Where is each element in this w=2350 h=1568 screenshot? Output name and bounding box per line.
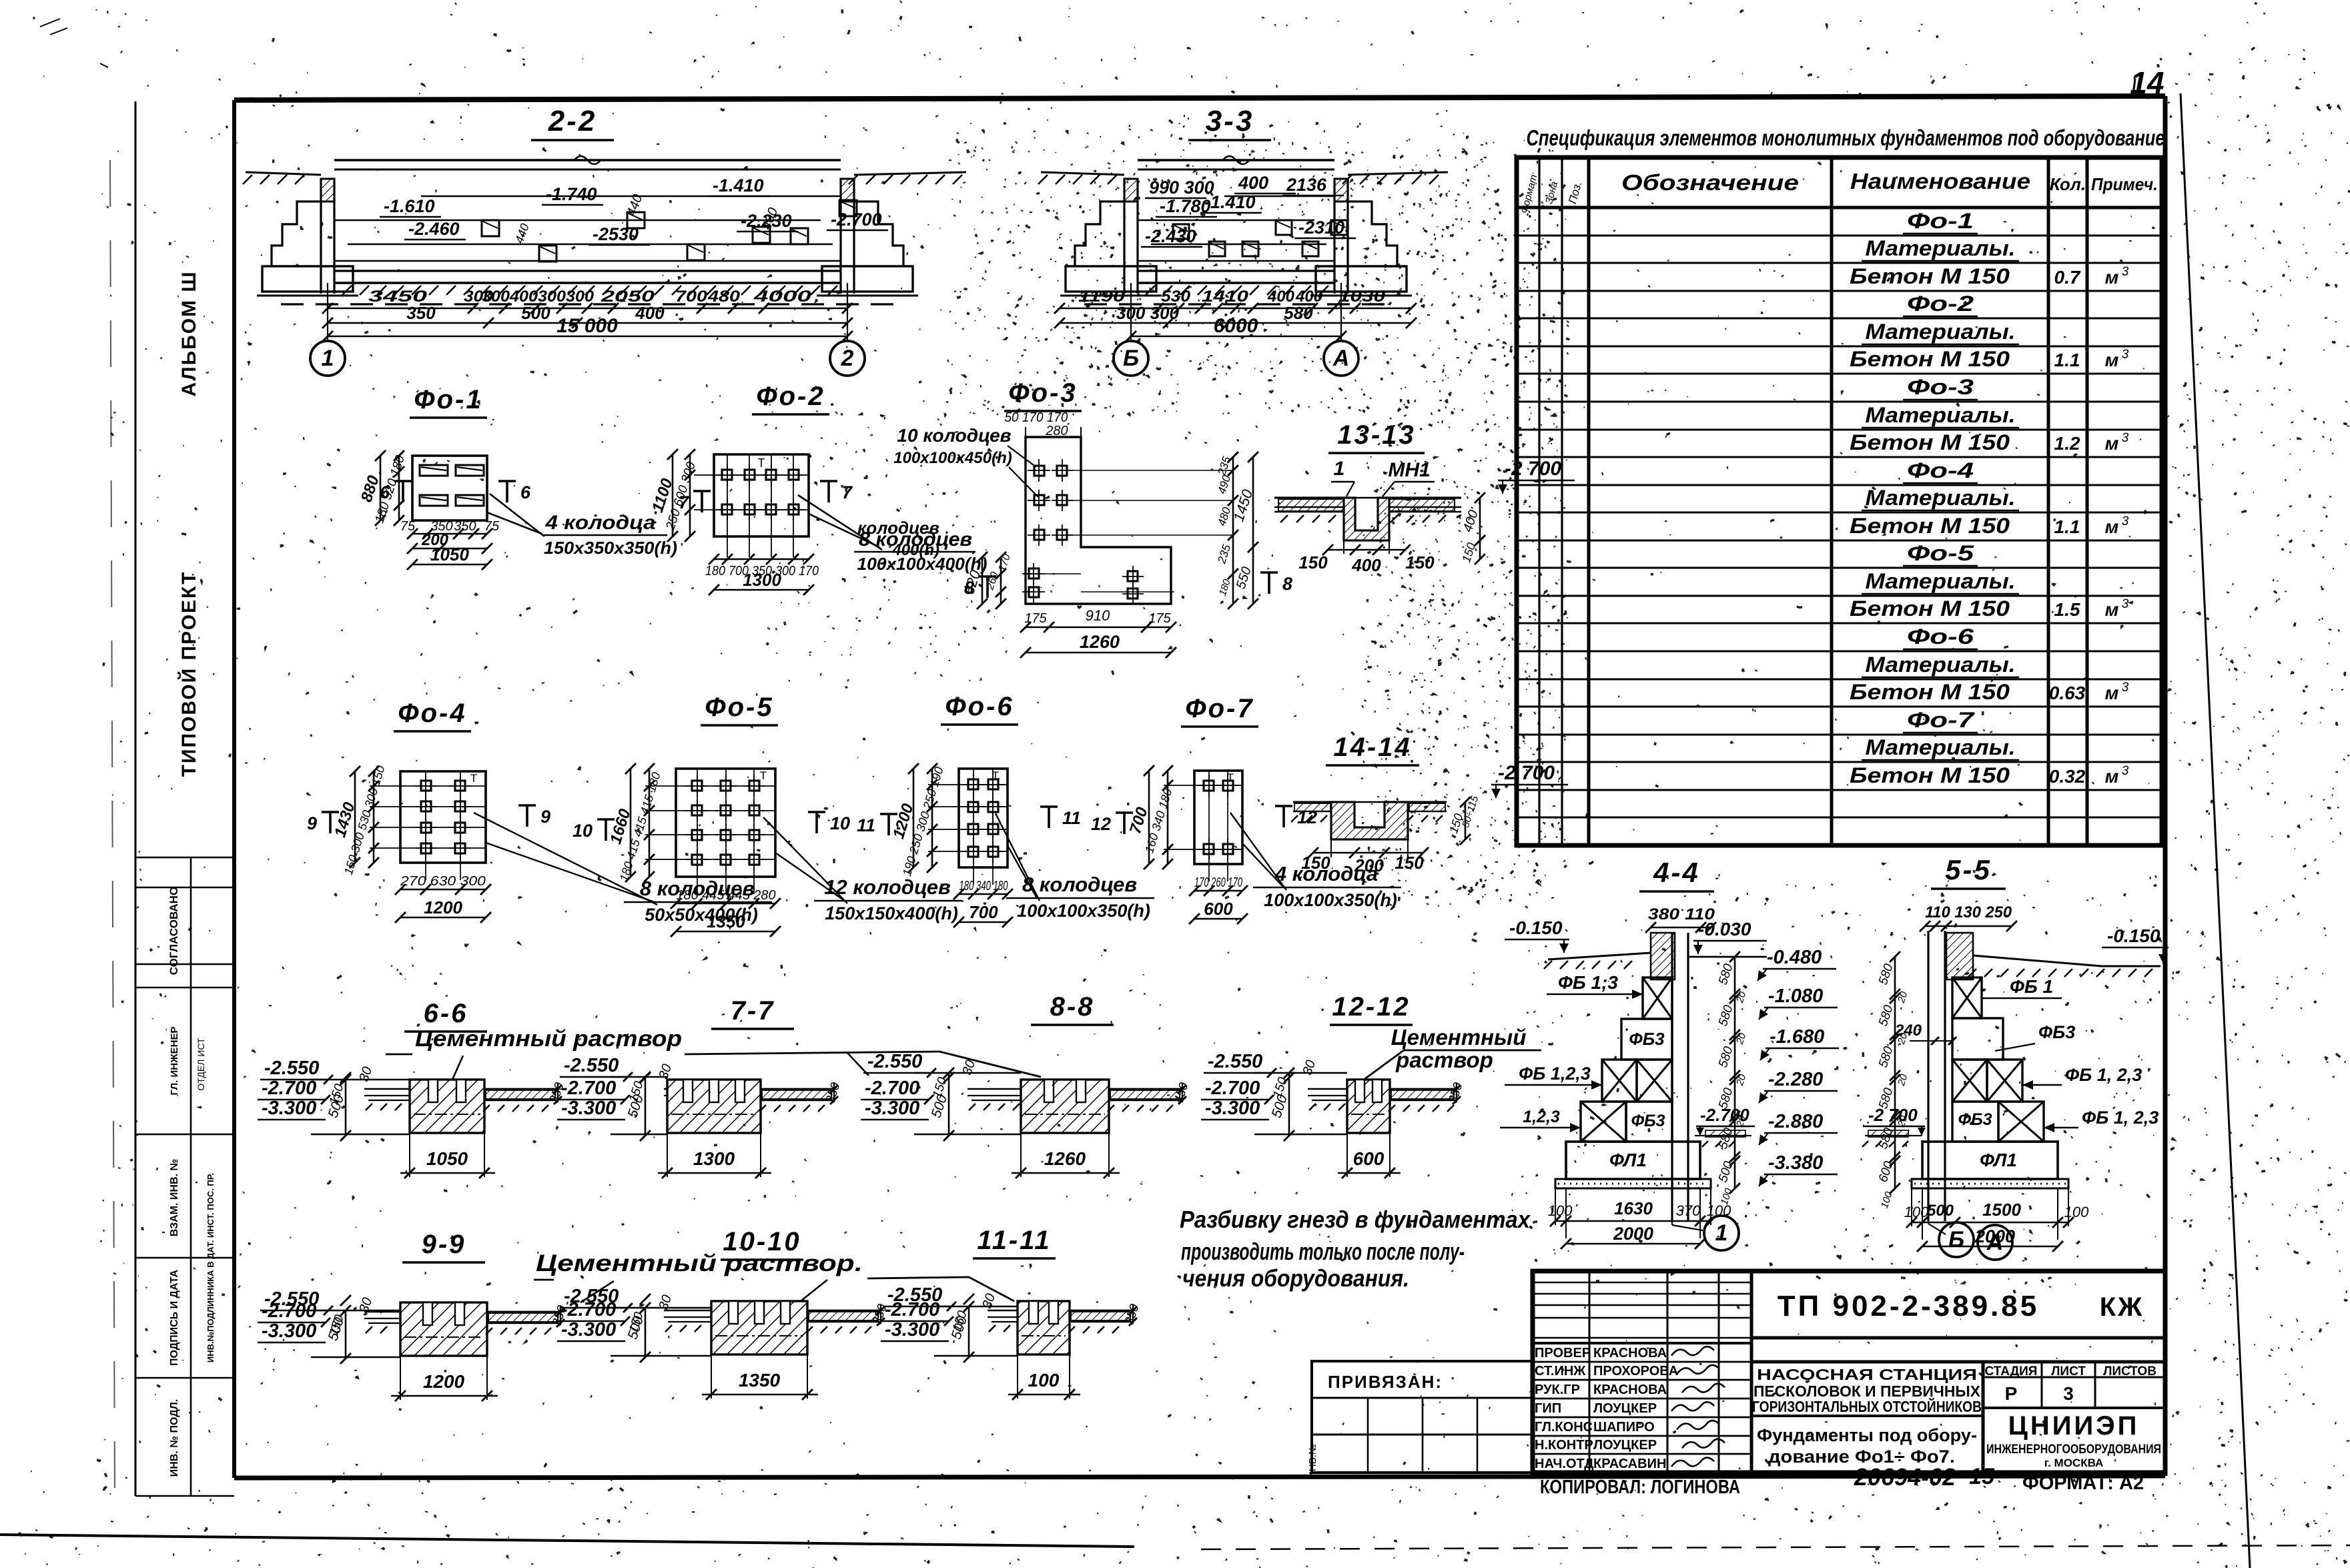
- svg-text:Фо-6: Фо-6: [1907, 625, 1974, 649]
- svg-text:А: А: [1986, 1230, 2004, 1255]
- svg-text:-0.480: -0.480: [1767, 947, 1822, 968]
- svg-text:50 170 170: 50 170 170: [1005, 410, 1068, 425]
- svg-text:Бетон М 150: Бетон М 150: [1850, 514, 2010, 538]
- svg-text:150х150х400(h): 150х150х400(h): [825, 903, 958, 923]
- svg-text:6000: 6000: [1214, 315, 1258, 337]
- svg-text:700: 700: [969, 902, 998, 922]
- svg-text:11: 11: [1062, 808, 1081, 828]
- svg-text:Фо-7: Фо-7: [1907, 708, 1976, 732]
- svg-text:270 630 300: 270 630 300: [400, 874, 486, 889]
- svg-text:РУК.ГР: РУК.ГР: [1535, 1383, 1580, 1397]
- svg-text:-3.380: -3.380: [1768, 1152, 1823, 1174]
- svg-text:ФОРМАТ: А2: ФОРМАТ: А2: [2022, 1473, 2144, 1494]
- svg-text:580: 580: [1876, 1045, 1896, 1070]
- svg-text:Материалы.: Материалы.: [1866, 403, 2016, 427]
- svg-text:580: 580: [1876, 1004, 1896, 1028]
- svg-text:8 колодцев: 8 колодцев: [1022, 873, 1137, 896]
- section 3-3 anchor boxes: [1173, 224, 1189, 239]
- svg-text:ФБ3: ФБ3: [1958, 1110, 1992, 1129]
- cement mortar label row3: [386, 1026, 1041, 1080]
- axis circle Б: [1114, 341, 1148, 376]
- svg-text:11: 11: [857, 815, 875, 835]
- svg-text:Спецификация элементов монолит: Спецификация элементов монолитных фундам…: [1527, 125, 2165, 150]
- 5-5 block FB3: [1952, 1018, 2003, 1060]
- svg-text:150: 150: [1301, 853, 1330, 873]
- svg-text:чения оборудования.: чения оборудования.: [1182, 1264, 1409, 1292]
- svg-text:ПРИВЯЗАН:: ПРИВЯЗАН:: [1328, 1372, 1443, 1392]
- svg-text:Фо-2: Фо-2: [756, 382, 825, 411]
- svg-text:580: 580: [1716, 1045, 1736, 1070]
- svg-text:МН1: МН1: [1388, 459, 1430, 481]
- svg-text:100: 100: [2064, 1204, 2089, 1220]
- svg-text:10: 10: [830, 813, 850, 833]
- svg-text:30: 30: [980, 1292, 998, 1310]
- svg-text:Т: Т: [760, 769, 767, 782]
- svg-text:3: 3: [2122, 514, 2129, 528]
- svg-text:30: 30: [356, 1065, 375, 1084]
- svg-text:ФБ 1;3: ФБ 1;3: [1558, 972, 1618, 993]
- svg-text:75: 75: [400, 519, 416, 534]
- svg-text:-1.780: -1.780: [1160, 196, 1211, 216]
- plan Фо-6: [857, 692, 1154, 927]
- cement mortar label row4: [534, 1250, 1014, 1302]
- svg-text:Бетон М 150: Бетон М 150: [1850, 597, 2010, 621]
- note text: [1180, 1206, 1531, 1292]
- plan Fo-3: [857, 378, 1292, 658]
- section 3-3 dim chain: [1130, 283, 1132, 340]
- svg-text:раствор: раствор: [1395, 1048, 1493, 1072]
- svg-text:350: 350: [406, 303, 436, 323]
- svg-text:1350: 1350: [707, 911, 745, 931]
- svg-text:ФБ 1, 2,3: ФБ 1, 2,3: [2065, 1065, 2142, 1085]
- svg-text:100: 100: [1879, 1190, 1895, 1210]
- svg-text:-2.700: -2.700: [865, 1078, 919, 1099]
- section 4-4: [1500, 857, 1839, 1250]
- svg-text:Бетон М 150: Бетон М 150: [1850, 347, 2010, 371]
- svg-text:-0.150: -0.150: [1509, 917, 1563, 938]
- svg-text:Цементный раствор: Цементный раствор: [415, 1026, 682, 1052]
- svg-text:Материалы.: Материалы.: [1866, 236, 2016, 260]
- svg-text:-2.700: -2.700: [561, 1078, 616, 1099]
- axis circle 2: [830, 341, 865, 376]
- svg-text:ФЛ1: ФЛ1: [1980, 1150, 2017, 1170]
- svg-text:12-12: 12-12: [1332, 992, 1410, 1022]
- svg-text:-2.550: -2.550: [264, 1058, 319, 1079]
- svg-text:150: 150: [1459, 541, 1478, 564]
- svg-text:3: 3: [2122, 431, 2129, 445]
- svg-text:Т: Т: [758, 456, 765, 470]
- svg-text:ИНВ.№: ИНВ.№: [1307, 1444, 1318, 1479]
- svg-text:-1.740: -1.740: [546, 184, 597, 204]
- svg-text:ФБ3: ФБ3: [1631, 1112, 1665, 1130]
- svg-text:180: 180: [1217, 577, 1233, 597]
- section 9-9: [258, 1230, 570, 1401]
- svg-text:350: 350: [454, 519, 476, 534]
- svg-text:м: м: [2105, 516, 2119, 537]
- axis circles B A (5-5): [1928, 1188, 1929, 1224]
- section 5-5: [1862, 854, 2169, 1260]
- section 3-3 stepped footing right: [1348, 202, 1397, 266]
- section 6-6: [258, 999, 567, 1178]
- svg-text:15: 15: [1969, 1464, 1995, 1489]
- svg-text:9: 9: [540, 807, 550, 827]
- section 10-10: [557, 1227, 890, 1400]
- svg-text:ПОДПИСЬ И ДАТА: ПОДПИСЬ И ДАТА: [169, 1270, 180, 1366]
- svg-text:ФЛ1: ФЛ1: [1609, 1150, 1647, 1170]
- svg-text:Поз.: Поз.: [1566, 180, 1584, 206]
- svg-text:ОТДЕЛ ИСТ: ОТДЕЛ ИСТ: [195, 1038, 206, 1091]
- svg-text:Фо-5: Фо-5: [1907, 541, 1975, 565]
- svg-text:100: 100: [1904, 1204, 1929, 1220]
- svg-text:Материалы.: Материалы.: [1866, 486, 2016, 510]
- svg-text:Цементный раствор.: Цементный раствор.: [536, 1250, 863, 1276]
- svg-text:500: 500: [1927, 1202, 1954, 1220]
- svg-text:150х350х350(h): 150х350х350(h): [544, 538, 677, 558]
- svg-text:КРАСНОВА: КРАСНОВА: [1593, 1383, 1667, 1397]
- svg-text:ГЛ. ИНЖЕНЕР: ГЛ. ИНЖЕНЕР: [169, 1026, 180, 1095]
- svg-text:3-3: 3-3: [1206, 105, 1254, 137]
- cement mortar label 12-12: [1364, 1025, 1541, 1080]
- svg-text:7: 7: [842, 482, 853, 502]
- svg-text:Материалы.: Материалы.: [1866, 320, 2016, 344]
- svg-text:-1.610: -1.610: [384, 196, 435, 216]
- svg-text:-3.300: -3.300: [561, 1319, 616, 1340]
- svg-text:1350: 1350: [739, 1370, 781, 1391]
- svg-text:КЖ: КЖ: [2100, 1292, 2144, 1322]
- svg-text:2: 2: [841, 346, 854, 371]
- svg-text:1050: 1050: [426, 1148, 468, 1169]
- svg-text:1500: 1500: [1982, 1200, 2021, 1220]
- section 3-3 top slab: [1138, 159, 1334, 161]
- svg-text:0.7: 0.7: [2054, 267, 2081, 288]
- svg-text:7-7: 7-7: [731, 996, 775, 1026]
- section 12-12: [1201, 992, 1466, 1178]
- svg-text:Бетон М 150: Бетон М 150: [1850, 680, 2010, 704]
- svg-text:Б: Б: [1123, 346, 1139, 371]
- svg-text:-2.880: -2.880: [1768, 1111, 1823, 1132]
- svg-text:-3.300: -3.300: [885, 1319, 939, 1340]
- svg-text:400: 400: [1351, 555, 1381, 575]
- svg-text:-2.550: -2.550: [867, 1051, 922, 1072]
- svg-text:1300: 1300: [743, 570, 781, 590]
- svg-text:600: 600: [1353, 1148, 1385, 1169]
- svg-text:производить только после полу-: производить только после полу-: [1181, 1238, 1465, 1265]
- svg-text:2-2: 2-2: [548, 105, 597, 137]
- svg-text:100х100х350(h): 100х100х350(h): [1264, 890, 1397, 910]
- svg-text:1630: 1630: [1614, 1198, 1653, 1218]
- svg-text:170 260 170: 170 260 170: [1194, 875, 1242, 890]
- svg-text:1.2: 1.2: [2054, 433, 2080, 454]
- svg-text:Бетон М 150: Бетон М 150: [1850, 763, 2010, 787]
- svg-text:1: 1: [1715, 1220, 1728, 1246]
- svg-text:4 колодца: 4 колодца: [544, 512, 655, 534]
- svg-text:100х100х450(h): 100х100х450(h): [893, 449, 1012, 467]
- svg-text:м: м: [2105, 433, 2119, 454]
- svg-text:1050: 1050: [430, 544, 469, 564]
- svg-text:580: 580: [1716, 1126, 1736, 1151]
- svg-text:1: 1: [322, 346, 334, 371]
- svg-text:КОПИРОВАЛ: ЛОГИНОВА: КОПИРОВАЛ: ЛОГИНОВА: [1540, 1477, 1740, 1498]
- svg-text:200: 200: [1354, 855, 1384, 875]
- svg-text:-2.700: -2.700: [561, 1299, 616, 1320]
- 4-4 bottom row X + FB3: [1581, 1102, 1626, 1142]
- svg-text:ИНВ. № ПОДЛ.: ИНВ. № ПОДЛ.: [169, 1399, 180, 1477]
- svg-text:370: 370: [1676, 1202, 1701, 1219]
- svg-text:-0.150: -0.150: [2107, 925, 2161, 946]
- svg-text:1300: 1300: [693, 1148, 735, 1169]
- spec table grid: [1517, 157, 2162, 845]
- svg-text:-3.300: -3.300: [561, 1098, 616, 1119]
- svg-text:-2.700: -2.700: [1205, 1078, 1260, 1099]
- section 2-2 ground lines: [246, 172, 321, 175]
- section 13-13: [1274, 420, 1575, 575]
- svg-text:Наименование: Наименование: [1850, 169, 2030, 193]
- section 2-2 dim chain: [327, 283, 328, 340]
- svg-text:500: 500: [521, 303, 550, 323]
- svg-text:Фо-3: Фо-3: [1008, 378, 1077, 408]
- axis circle 1 (4-4): [1671, 1188, 1673, 1225]
- svg-text:30: 30: [656, 1293, 675, 1312]
- svg-text:150: 150: [1405, 552, 1435, 572]
- axis circle 1: [310, 341, 345, 376]
- svg-text:580: 580: [1716, 962, 1736, 987]
- svg-text:-0.030: -0.030: [1698, 919, 1751, 939]
- svg-text:10: 10: [572, 821, 593, 841]
- svg-text:Б: Б: [1948, 1227, 1964, 1252]
- svg-text:Обозначение: Обозначение: [1621, 170, 1799, 195]
- svg-text:100: 100: [1028, 1370, 1060, 1391]
- svg-text:400: 400: [1238, 173, 1268, 193]
- svg-text:-3.300: -3.300: [262, 1098, 316, 1119]
- svg-text:ВЗАМ. ИНВ. №: ВЗАМ. ИНВ. №: [169, 1159, 180, 1236]
- section 3-3 dashed line: [1084, 303, 1388, 305]
- svg-text:-1.410: -1.410: [713, 175, 764, 195]
- svg-text:ИНЖЕНЕРНОГООБОРУДОВАНИЯ: ИНЖЕНЕРНОГООБОРУДОВАНИЯ: [1986, 1443, 2161, 1457]
- section 2-2 stepped footing right: [854, 202, 903, 266]
- svg-text:235: 235: [1215, 542, 1233, 565]
- section 3-3 walls: [1123, 179, 1125, 294]
- svg-text:Фо-4: Фо-4: [398, 699, 466, 728]
- svg-text:8: 8: [1282, 574, 1292, 594]
- svg-text:Бетон М 150: Бетон М 150: [1850, 264, 2010, 288]
- plan Fo-2: [649, 382, 987, 595]
- svg-text:м: м: [2105, 766, 2119, 787]
- svg-text:580: 580: [1284, 303, 1313, 323]
- svg-text:-1.680: -1.680: [1770, 1026, 1824, 1048]
- svg-text:7: 7: [679, 492, 690, 512]
- svg-text:580: 580: [1876, 1126, 1896, 1151]
- svg-text:Материалы.: Материалы.: [1866, 653, 2016, 677]
- svg-text:ЛОУЦКЕР: ЛОУЦКЕР: [1593, 1438, 1657, 1453]
- plan Fo-1: [358, 385, 677, 570]
- svg-text:400(h): 400(h): [891, 541, 939, 559]
- svg-text:8-8: 8-8: [1050, 992, 1095, 1022]
- svg-text:600: 600: [1876, 1160, 1896, 1184]
- 5-5 block FB1 top: [1952, 977, 1982, 1018]
- svg-text:КРАСНОВА: КРАСНОВА: [1593, 1346, 1667, 1360]
- svg-text:580: 580: [1876, 962, 1896, 987]
- section 2-2 tank bottom: [334, 270, 841, 272]
- 4-4 block FB1,3 top: [1643, 977, 1672, 1019]
- svg-text:Материалы.: Материалы.: [1866, 735, 2016, 759]
- svg-text:ФБ3: ФБ3: [2038, 1022, 2075, 1042]
- svg-text:175: 175: [1024, 611, 1047, 626]
- svg-text:Фо-7: Фо-7: [1185, 694, 1254, 723]
- svg-text:480: 480: [707, 288, 741, 306]
- section 2-2 dashed line: [281, 303, 894, 305]
- svg-text:Т: Т: [992, 769, 999, 782]
- svg-text:910: 910: [1086, 607, 1110, 624]
- svg-text:0.63: 0.63: [2049, 683, 2086, 703]
- svg-text:2000: 2000: [1613, 1224, 1653, 1244]
- svg-text:-2.700: -2.700: [885, 1299, 939, 1320]
- svg-text:Кол.: Кол.: [2050, 174, 2086, 194]
- svg-text:12 колодцев: 12 колодцев: [824, 875, 951, 899]
- svg-text:Зона: Зона: [1543, 180, 1560, 205]
- svg-text:1.1: 1.1: [2054, 516, 2080, 537]
- svg-text:Материалы.: Материалы.: [1866, 569, 2016, 593]
- svg-text:-2.700: -2.700: [262, 1078, 316, 1099]
- 4-4 footing FL1: [1566, 1142, 1700, 1179]
- svg-text:6-6: 6-6: [424, 999, 468, 1028]
- svg-text:280: 280: [1045, 424, 1068, 438]
- section 3-3 ground lines: [1041, 172, 1124, 175]
- svg-text:150: 150: [1395, 853, 1424, 873]
- svg-text:Разбивку гнезд в фундаментах: Разбивку гнезд в фундаментах: [1180, 1206, 1531, 1233]
- svg-text:Примеч.: Примеч.: [2091, 174, 2158, 194]
- svg-text:3: 3: [2122, 265, 2129, 279]
- svg-text:14-14: 14-14: [1333, 733, 1411, 762]
- svg-text:-2.460: -2.460: [408, 219, 460, 239]
- svg-text:13-13: 13-13: [1337, 420, 1415, 450]
- svg-text:Фо-6: Фо-6: [945, 692, 1014, 721]
- svg-text:11-11: 11-11: [977, 1226, 1051, 1255]
- svg-text:ГЛ.КОНС: ГЛ.КОНС: [1535, 1420, 1593, 1435]
- left margin stamp column: [135, 270, 234, 1496]
- svg-text:100: 100: [1548, 1202, 1573, 1219]
- svg-text:150: 150: [1298, 552, 1328, 572]
- svg-text:-2.550: -2.550: [1208, 1051, 1262, 1072]
- svg-text:9-9: 9-9: [422, 1230, 466, 1259]
- svg-text:180 340 180: 180 340 180: [959, 879, 1008, 893]
- svg-text:А: А: [1332, 346, 1350, 371]
- svg-text:-2.700: -2.700: [262, 1300, 316, 1322]
- svg-text:170: 170: [997, 552, 1013, 573]
- svg-text:ЦНИИЭП: ЦНИИЭП: [2008, 1411, 2140, 1441]
- svg-text:-2.280: -2.280: [1768, 1069, 1823, 1090]
- svg-text:20: 20: [1896, 1072, 1910, 1088]
- svg-text:Фундаменты под обору-: Фундаменты под обору-: [1757, 1425, 1977, 1445]
- svg-text:1030: 1030: [1338, 288, 1386, 306]
- svg-text:ИНВ.№ПОДЛИННИКА В ДАТ. ИНСТ. П: ИНВ.№ПОДЛИННИКА В ДАТ. ИНСТ. ПОС. ПР.: [206, 1173, 216, 1362]
- svg-text:ШАПИРО: ШАПИРО: [1593, 1420, 1655, 1435]
- svg-text:Н.КОНТР: Н.КОНТР: [1535, 1438, 1593, 1453]
- svg-text:Фо-1: Фо-1: [414, 385, 482, 414]
- svg-text:ЛОУЦКЕР: ЛОУЦКЕР: [1593, 1401, 1657, 1416]
- svg-text:-1.080: -1.080: [1768, 986, 1823, 1007]
- svg-text:1.1: 1.1: [2054, 350, 2080, 370]
- svg-text:ТИПОВОЙ ПРОЕКТ: ТИПОВОЙ ПРОЕКТ: [177, 571, 200, 777]
- svg-text:12: 12: [1091, 814, 1111, 834]
- 5-5 bottom row FB3 + X: [1952, 1102, 1998, 1142]
- section 7-7: [557, 996, 843, 1178]
- svg-text:м: м: [2105, 683, 2119, 703]
- svg-text:440: 440: [512, 222, 532, 245]
- svg-text:180 445 445 280: 180 445 445 280: [677, 888, 776, 903]
- section 2-2 stepped footing left: [272, 202, 321, 266]
- svg-text:4000: 4000: [753, 288, 812, 306]
- section 3-3 stepped footing left: [1075, 202, 1124, 266]
- svg-text:100х100х350(h): 100х100х350(h): [1017, 901, 1150, 921]
- section 8-8: [861, 992, 1192, 1178]
- svg-text:1200: 1200: [423, 1371, 465, 1392]
- svg-text:Бетон М 150: Бетон М 150: [1850, 430, 2010, 454]
- svg-text:490: 490: [1215, 473, 1233, 495]
- svg-text:НАСОСНАЯ СТАНЦИЯ: НАСОСНАЯ СТАНЦИЯ: [1757, 1366, 1977, 1383]
- svg-text:500: 500: [1716, 1160, 1736, 1184]
- svg-text:4-4: 4-4: [1653, 857, 1700, 888]
- svg-text:1.5: 1.5: [2054, 599, 2080, 620]
- svg-text:1200: 1200: [424, 897, 462, 917]
- plan Фо-7: [1091, 694, 1401, 924]
- svg-text:СТ.ИНЖ: СТ.ИНЖ: [1535, 1364, 1586, 1379]
- 5-5 footing FL1: [1922, 1142, 2058, 1179]
- svg-text:ПРОВЕР: ПРОВЕР: [1535, 1346, 1591, 1360]
- svg-text:15 000: 15 000: [556, 315, 618, 337]
- section 2-2 inner lines: [421, 195, 841, 198]
- svg-text:НАЧ.ОТД: НАЧ.ОТД: [1535, 1457, 1594, 1471]
- svg-text:СОГЛАСОВАНО: СОГЛАСОВАНО: [167, 887, 180, 975]
- svg-text:м: м: [2105, 350, 2119, 370]
- svg-text:3: 3: [2063, 1383, 2074, 1404]
- svg-text:0.32: 0.32: [2049, 766, 2086, 787]
- privyazan box: [1307, 1361, 1533, 1479]
- svg-text:колодцев: колодцев: [857, 518, 939, 538]
- svg-text:6: 6: [520, 482, 531, 502]
- svg-text:5-5: 5-5: [1945, 854, 1992, 885]
- svg-text:м: м: [2105, 267, 2119, 288]
- svg-text:600: 600: [1204, 899, 1233, 919]
- svg-text:СТАДИЯ: СТАДИЯ: [1985, 1364, 2038, 1379]
- spec table rows text: [1850, 209, 2129, 787]
- svg-text:ГОРИЗОНТАЛЬНЫХ ОТСТОЙНИКОВ: ГОРИЗОНТАЛЬНЫХ ОТСТОЙНИКОВ: [1752, 1397, 1982, 1415]
- svg-text:580: 580: [1716, 1004, 1736, 1028]
- svg-text:9: 9: [307, 813, 317, 833]
- svg-text:-2 700: -2 700: [1498, 762, 1555, 784]
- section 3-3 inner lines: [1224, 195, 1334, 198]
- svg-text:1260: 1260: [1080, 632, 1120, 652]
- section 14-14: [1291, 733, 1568, 875]
- svg-text:ФБ 1,2,3: ФБ 1,2,3: [1519, 1064, 1591, 1084]
- svg-text:Фо-1: Фо-1: [1907, 209, 1974, 233]
- section 2-2 anchor boxes: [482, 220, 499, 236]
- svg-text:-3.300: -3.300: [262, 1320, 316, 1342]
- axis circle А: [1324, 341, 1358, 376]
- 4-4 block FB3: [1621, 1019, 1672, 1060]
- svg-text:1: 1: [1334, 458, 1345, 480]
- svg-text:75: 75: [484, 519, 500, 534]
- svg-text:Т: Т: [1227, 771, 1234, 784]
- svg-text:3: 3: [2122, 681, 2129, 695]
- svg-text:-3.300: -3.300: [1205, 1098, 1260, 1119]
- svg-text:Р: Р: [2005, 1383, 2018, 1404]
- svg-text:ЛИСТ: ЛИСТ: [2051, 1364, 2086, 1379]
- svg-text:10 колодцев: 10 колодцев: [897, 425, 1011, 446]
- svg-text:Фо-5: Фо-5: [705, 693, 773, 722]
- svg-text:г. МОСКВА: г. МОСКВА: [2044, 1457, 2104, 1469]
- 4-4 block FB123 double: [1602, 1060, 1637, 1102]
- section 3-3 tank bottom: [1138, 270, 1334, 272]
